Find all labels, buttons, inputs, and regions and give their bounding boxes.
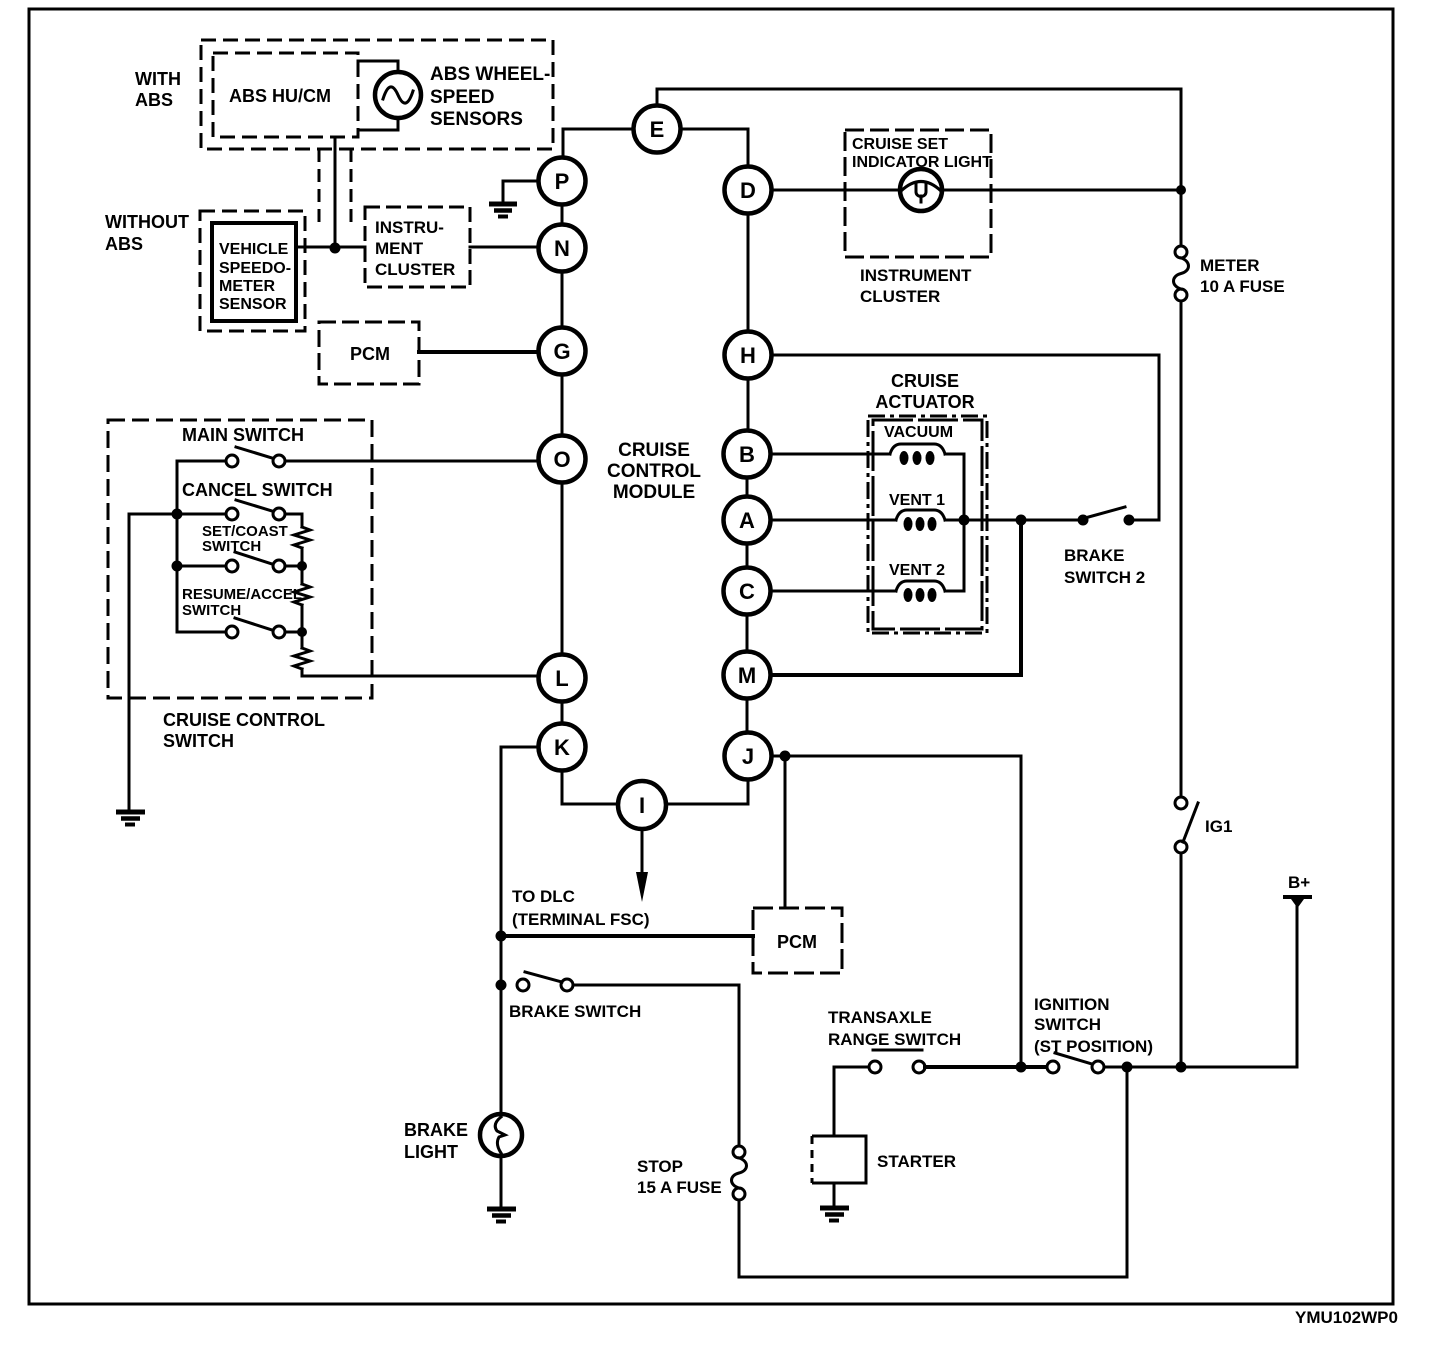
label WITHOUT ABS [105, 212, 189, 254]
svg-text:(TERMINAL FSC): (TERMINAL FSC) [512, 910, 650, 929]
resistor R2 [294, 584, 310, 605]
fuse METER 10A [1174, 246, 1189, 301]
wire H to B [747, 379, 750, 430]
label BRAKE LIGHT [404, 1120, 468, 1162]
wire P to N [561, 205, 564, 225]
wire left bus [177, 461, 226, 632]
svg-text:SPEEDO-: SPEEDO- [219, 260, 291, 277]
wire C to vent2 coil [770, 590, 896, 593]
resistor R3 [294, 648, 310, 669]
wire J to ignition riser [772, 756, 1021, 1062]
ground at P [489, 204, 517, 217]
wire brake switch to stop fuse [573, 985, 739, 1146]
box PCM (upper) [319, 322, 419, 384]
terminal I [618, 781, 666, 829]
svg-text:BRAKE: BRAKE [1064, 546, 1124, 565]
label WITH ABS [135, 69, 181, 110]
svg-text:P: P [555, 169, 570, 194]
label IGNITION SWITCH (ST POSITION) [1034, 995, 1153, 1056]
svg-text:L: L [555, 666, 568, 691]
svg-text:LIGHT: LIGHT [404, 1142, 458, 1162]
terminal P [539, 158, 586, 205]
ground at starter [820, 1208, 849, 1221]
terminal N [539, 225, 586, 272]
node chain resume junction [297, 627, 307, 637]
wire speedometer sensor to instrument cluster [296, 246, 365, 249]
svg-text:J: J [742, 744, 754, 769]
dashed box WITH ABS assembly [201, 40, 553, 149]
wire C to M [746, 614, 749, 652]
svg-text:G: G [553, 339, 570, 364]
box ABS HU/CM [213, 53, 358, 137]
wire E top to meter fuse line [657, 89, 1181, 246]
dashed box WITHOUT ABS assembly [200, 211, 305, 331]
coil VENT 2 solenoid [896, 581, 945, 602]
svg-text:MODULE: MODULE [613, 482, 695, 503]
svg-text:D: D [740, 178, 756, 203]
svg-text:SENSOR: SENSOR [219, 296, 287, 313]
label TRANSAXLE RANGE SWITCH [828, 1008, 961, 1049]
label CRUISE CONTROL MODULE [607, 440, 701, 503]
wire vent1 coil to brake switch 2 [945, 519, 1079, 522]
svg-text:INSTRU-: INSTRU- [375, 218, 444, 237]
terminal D [725, 167, 772, 214]
wire ground line down [128, 514, 131, 810]
svg-text:STARTER: STARTER [877, 1152, 956, 1171]
node chain set junction [297, 561, 307, 571]
wire L to K [561, 701, 564, 724]
wire fuse to IG1 [1180, 301, 1183, 797]
wire R3 to L [302, 669, 538, 678]
svg-text:K: K [554, 735, 570, 760]
wire ABS HU/CM down to speed signal junction [334, 137, 337, 248]
svg-text:BRAKE: BRAKE [404, 1120, 468, 1140]
arrow I to DLC [636, 829, 648, 902]
label RESUME/ACCEL SWITCH [182, 586, 302, 619]
label CRUISE ACTUATOR [875, 371, 974, 412]
svg-text:E: E [650, 117, 665, 142]
label BRAKE SWITCH 2 [1064, 546, 1145, 587]
box VEHICLE SPEEDOMETER SENSOR [212, 223, 296, 321]
svg-text:TO DLC: TO DLC [512, 887, 575, 906]
svg-text:VACUUM: VACUUM [884, 424, 953, 441]
wire PCM riser [784, 756, 787, 908]
svg-text:ABS: ABS [135, 90, 173, 110]
node cancel bus junction [172, 509, 183, 520]
label ABS WHEEL-SPEED SENSORS [430, 64, 550, 130]
svg-text:CANCEL SWITCH: CANCEL SWITCH [182, 480, 333, 500]
dashed channel from WITH ABS box [319, 149, 351, 227]
svg-text:CONTROL: CONTROL [607, 461, 701, 482]
node PCM riser junction [780, 751, 791, 762]
svg-text:SWITCH: SWITCH [182, 602, 241, 619]
wire ignition row to B+ [1104, 906, 1297, 1067]
node ignition riser junction [1016, 1062, 1027, 1073]
wire stop fuse to ignition row [739, 1072, 1127, 1277]
switch brake switch 2 [1078, 507, 1135, 526]
fuse STOP 15A [732, 1146, 747, 1200]
box INSTRUMENT CLUSTER (speedo) [365, 207, 470, 287]
wire IG1 to ignition row [1180, 853, 1183, 1062]
svg-text:10 A FUSE: 10 A FUSE [1200, 277, 1285, 296]
svg-text:N: N [554, 236, 570, 261]
terminal H [725, 332, 772, 379]
box cruise actuator inner [873, 420, 982, 629]
wire M to riser [771, 526, 1021, 675]
label METER 10 A FUSE [1200, 256, 1285, 296]
terminal C [724, 568, 771, 615]
wire D to H [747, 214, 750, 332]
ground at cruise control switch [116, 812, 145, 825]
svg-text:RANGE SWITCH: RANGE SWITCH [828, 1030, 961, 1049]
wire R2 to resume row [301, 605, 304, 632]
svg-text:SWITCH 2: SWITCH 2 [1064, 568, 1145, 587]
box PCM (lower) [753, 908, 842, 973]
svg-text:B+: B+ [1288, 873, 1310, 892]
svg-text:M: M [738, 663, 756, 688]
power B+ [1283, 873, 1312, 908]
svg-text:SENSORS: SENSORS [430, 109, 523, 130]
svg-text:I: I [639, 793, 645, 818]
dashed box CRUISE CONTROL SWITCH [108, 420, 372, 698]
wire instrument cluster to terminal N [470, 246, 539, 249]
svg-text:IG1: IG1 [1205, 817, 1232, 836]
wire cancel row to ground line [129, 513, 226, 516]
node M riser junction [1016, 515, 1027, 526]
svg-text:CRUISE: CRUISE [891, 371, 959, 391]
svg-text:CRUISE CONTROL: CRUISE CONTROL [163, 710, 325, 730]
terminal K [539, 724, 586, 771]
switch BRAKE SWITCH [517, 972, 573, 991]
wire I to J [666, 780, 748, 804]
label CRUISE SET INDICATOR LIGHT [852, 136, 992, 171]
node coil bus junction [959, 515, 970, 526]
wire A to vent1 coil [770, 519, 896, 522]
svg-text:CLUSTER: CLUSTER [375, 260, 455, 279]
svg-text:VENT 2: VENT 2 [889, 562, 945, 579]
svg-text:WITH: WITH [135, 69, 181, 89]
node stop-fuse riser junction [1122, 1062, 1133, 1073]
svg-text:CRUISE SET: CRUISE SET [852, 136, 948, 153]
svg-text:H: H [740, 343, 756, 368]
wire R1 to set row [301, 548, 304, 566]
wire G to O [561, 375, 564, 436]
wire cancel to resistor chain [285, 514, 302, 527]
wire set row to chain [285, 565, 302, 568]
terminal A [724, 497, 771, 544]
svg-text:C: C [739, 579, 755, 604]
terminal E [634, 106, 681, 153]
wire bus to set/coast switch [177, 565, 226, 568]
node IG1 riser junction [1176, 1062, 1187, 1073]
svg-text:A: A [739, 508, 755, 533]
terminal L [539, 655, 586, 702]
wire O to L [561, 483, 564, 654]
box STARTER [812, 1136, 956, 1183]
switch TRANSAXLE RANGE [869, 1050, 925, 1073]
svg-text:METER: METER [219, 278, 275, 295]
svg-text:CRUISE: CRUISE [618, 440, 690, 461]
sensor ABS wheel-speed (AC symbol) [375, 72, 421, 118]
wire E to P [563, 129, 633, 157]
wire D row through indicator light to fuse line [772, 189, 901, 192]
lamp cruise set indicator [900, 169, 942, 211]
terminal O [539, 436, 586, 483]
svg-text:CLUSTER: CLUSTER [860, 287, 940, 306]
svg-text:IGNITION: IGNITION [1034, 995, 1110, 1014]
wire set to R2 [301, 566, 304, 584]
wire DLC row to PCM [501, 934, 753, 938]
svg-text:SWITCH: SWITCH [1034, 1015, 1101, 1034]
wire N to G [561, 271, 564, 328]
svg-text:BRAKE SWITCH: BRAKE SWITCH [509, 1002, 641, 1021]
label INSTRUMENT CLUSTER [860, 266, 972, 306]
label CRUISE CONTROL SWITCH [163, 710, 325, 751]
wire bus to resume/accel switch [177, 631, 226, 634]
node junction fuse line at D row [1176, 185, 1186, 195]
svg-text:ACTUATOR: ACTUATOR [875, 392, 974, 412]
svg-text:INSTRUMENT: INSTRUMENT [860, 266, 972, 285]
wire K to I row [562, 771, 618, 804]
svg-text:RESUME/ACCEL: RESUME/ACCEL [182, 586, 302, 603]
wire brake light to ground [500, 1156, 503, 1207]
wire M to J [746, 698, 749, 733]
wire B to vacuum coil [770, 453, 890, 456]
label STOP 15 A FUSE [637, 1157, 722, 1197]
svg-text:O: O [553, 447, 570, 472]
svg-text:TRANSAXLE: TRANSAXLE [828, 1008, 932, 1027]
svg-text:MAIN SWITCH: MAIN SWITCH [182, 425, 304, 445]
wire K to DLC/brake line [501, 747, 539, 1114]
coil VENT 1 solenoid [896, 510, 945, 531]
switch SET/COAST [226, 552, 285, 572]
svg-text:YMU102WP0: YMU102WP0 [1295, 1308, 1398, 1327]
svg-text:VEHICLE: VEHICLE [219, 241, 289, 258]
wire A to C [746, 543, 749, 568]
svg-text:ABS: ABS [105, 234, 143, 254]
wire resume row to chain [285, 631, 302, 634]
wire B to A [746, 477, 749, 497]
switch RESUME/ACCEL [226, 618, 285, 638]
label TO DLC (TERMINAL FSC) [512, 887, 650, 929]
wire sensor bottom to ABS HU/CM [358, 118, 398, 130]
svg-text:SWITCH: SWITCH [163, 731, 234, 751]
switch IGNITION (ST) [1047, 1053, 1104, 1073]
node speed signal junction [330, 243, 341, 254]
svg-text:STOP: STOP [637, 1157, 683, 1176]
wire PCM to terminal G [419, 350, 539, 354]
wire vent2 coil to coil bus [945, 590, 964, 593]
svg-text:15 A FUSE: 15 A FUSE [637, 1178, 722, 1197]
coil VACUUM solenoid [890, 444, 945, 465]
wire P to ground [503, 181, 538, 203]
wire H to brake switch 2 [771, 355, 1159, 520]
switch IG1 [1175, 797, 1198, 853]
terminal G [539, 328, 586, 375]
wire ABS HU/CM to sensor top [358, 61, 398, 72]
svg-text:ABS WHEEL-: ABS WHEEL- [430, 64, 550, 85]
switch MAIN [226, 447, 285, 467]
wire starter to ground [833, 1183, 836, 1206]
node bus set junction [172, 561, 183, 572]
dashed box instrument cluster (indicator) [845, 130, 991, 257]
svg-text:PCM: PCM [350, 344, 390, 364]
svg-text:SPEED: SPEED [430, 87, 494, 108]
wire resume to R3 [301, 632, 304, 648]
terminal J [725, 733, 772, 780]
dashed box cruise actuator [868, 416, 987, 633]
terminal M [724, 652, 771, 699]
svg-text:(ST POSITION): (ST POSITION) [1034, 1037, 1153, 1056]
resistor R1 [294, 527, 310, 548]
wire transaxle right to ignition [925, 1065, 1047, 1069]
svg-text:SWITCH: SWITCH [202, 538, 261, 555]
svg-text:METER: METER [1200, 256, 1260, 275]
ground at brake light [487, 1209, 516, 1222]
wire transaxle left to starter [834, 1067, 869, 1136]
svg-text:WITHOUT: WITHOUT [105, 212, 189, 232]
wire vacuum coil to coil bus [945, 454, 964, 591]
label SET/COAST SWITCH [202, 523, 288, 555]
svg-text:B: B [739, 442, 755, 467]
svg-text:ABS HU/CM: ABS HU/CM [229, 86, 331, 106]
svg-text:PCM: PCM [777, 932, 817, 952]
wire E to D [681, 129, 748, 166]
switch CANCEL [226, 500, 285, 520]
node brake switch junction [496, 980, 507, 991]
node DLC row junction [496, 931, 507, 942]
lamp brake light [480, 1114, 522, 1156]
wire main switch to O [285, 460, 538, 463]
svg-text:MENT: MENT [375, 239, 424, 258]
svg-text:VENT 1: VENT 1 [889, 492, 945, 509]
terminal B [724, 431, 771, 478]
